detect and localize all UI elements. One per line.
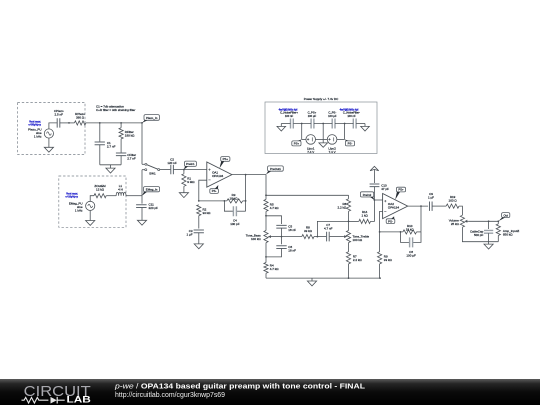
- battery Lipo1 7.4 V: [306, 135, 316, 145]
- voltage source EMag_PU: [86, 201, 95, 210]
- wire C8 parallel loop: [401, 232, 410, 243]
- wire EMag_PU to ZOutEM: [90, 196, 94, 202]
- wiper arrow Tone_Treble: [344, 236, 347, 238]
- svg-text:1 µF: 1 µF: [187, 233, 193, 237]
- ground tone stack rail: [311, 278, 313, 281]
- svg-text:180 kΩ: 180 kΩ: [125, 134, 135, 138]
- node junction R7 ground rail: [348, 277, 350, 279]
- wire riser to treble top: [317, 221, 348, 236]
- wire C1 branch down: [99, 123, 101, 142]
- wire PS- riser down: [344, 124, 346, 140]
- resistor R3 18 kOhm: [227, 199, 243, 203]
- wire ZOutEM to L1: [106, 195, 116, 197]
- capacitor C4 100 pF: [233, 206, 236, 216]
- wire R10 right to feedback riser: [417, 231, 422, 233]
- node junction centre riser: [322, 123, 324, 125]
- node junction PS- riser: [344, 123, 346, 125]
- svg-text:4.7 kΩ: 4.7 kΩ: [270, 206, 280, 210]
- capacitor C9 1 uF: [430, 202, 433, 211]
- svg-text:100 kΩ: 100 kΩ: [251, 237, 261, 241]
- svg-text:PS+: PS+: [398, 188, 404, 192]
- capacitor C11 220 pF: [141, 196, 143, 204]
- net flag Piezo_In: [144, 115, 159, 121]
- wire C7 to treble wiper: [330, 236, 344, 238]
- potentiometer Volume 25 kOhm: [460, 215, 464, 227]
- svg-text:LAB: LAB: [67, 394, 92, 405]
- resistor R4 4.7 kOhm: [264, 263, 268, 274]
- net flag PreIn2: [360, 192, 373, 197]
- ground power supply centre: [322, 139, 324, 143]
- node junction OA1 output feedback: [245, 174, 247, 176]
- wire centre riser down: [322, 124, 324, 140]
- wire PreIn1 to OA1 noninverting input: [184, 169, 207, 171]
- wire feedback node to R3: [199, 200, 227, 202]
- capacitor C1 2.7 nF: [95, 142, 105, 145]
- capacitor C7 4.7 nF: [327, 232, 330, 242]
- node junction treble top R14: [348, 221, 350, 223]
- node junction bass wiper C5 C6: [281, 236, 283, 238]
- wire RFilter branch down: [120, 123, 122, 128]
- wire source Piezo_PU to ground: [48, 138, 50, 147]
- wire C9 to R19: [432, 205, 446, 207]
- svg-text:1 kHz: 1 kHz: [34, 134, 42, 138]
- svg-text:OPA134: OPA134: [212, 174, 223, 178]
- svg-text:25 kΩ: 25 kΩ: [451, 222, 460, 226]
- voltage source Piezo_PU: [44, 129, 53, 138]
- wire RFilter to CFilter: [120, 139, 122, 153]
- wire C3 to ground: [198, 233, 200, 244]
- net flag PreIn1: [185, 161, 197, 166]
- wire OA2 inverting input to feedback node: [380, 211, 383, 232]
- wiper arrow Volume: [465, 220, 469, 222]
- svg-text:SW1: SW1: [149, 172, 156, 176]
- resistor R8 33 kOhm: [302, 235, 314, 239]
- svg-text:PreOut1: PreOut1: [270, 167, 281, 171]
- ground below C3: [194, 244, 203, 249]
- ground below C11: [137, 220, 146, 225]
- node junction PS+ riser: [301, 123, 303, 125]
- ground filter network: [110, 165, 112, 168]
- wire R2 to C3: [198, 216, 200, 229]
- node junction feedback left: [198, 200, 200, 202]
- svg-text:7.4 V: 7.4 V: [307, 150, 314, 154]
- svg-text:100 kΩ: 100 kΩ: [353, 238, 363, 242]
- wire R8 to C7: [314, 236, 326, 238]
- ground below Piezo_PU: [44, 147, 53, 152]
- capacitor C6 18 nF: [281, 237, 283, 245]
- wire CableCap branch: [488, 221, 490, 229]
- capacitor C8 100 uF: [410, 237, 413, 247]
- svg-text:Piezo_In: Piezo_In: [146, 116, 158, 120]
- svg-text:4.7 kΩ: 4.7 kΩ: [270, 267, 280, 271]
- net flag arrow above C10: [370, 166, 379, 171]
- svg-text:p-we / OPA134 based guitar pre: p-we / OPA134 based guitar preamp with t…: [114, 382, 366, 391]
- resistor R10 18 kOhm: [403, 230, 417, 234]
- svg-text:9 MΩ: 9 MΩ: [187, 180, 195, 184]
- wire R7 to ground rail: [348, 264, 350, 278]
- svg-text:650 kΩ: 650 kΩ: [503, 233, 513, 237]
- ground power supply right: [364, 124, 366, 127]
- potentiometer Tone_Bass 100 kOhm: [264, 231, 268, 243]
- node junction CPiezo-RPiezo: [68, 122, 70, 124]
- wire R1 to ground: [183, 186, 185, 192]
- wire switch bottom contact down to EMag_In: [141, 170, 143, 196]
- wire OA1 output: [232, 174, 266, 176]
- wire Amp_InputZ to ground rail: [497, 236, 499, 242]
- svg-text:390 Ω: 390 Ω: [76, 115, 85, 119]
- svg-text:7.4 V: 7.4 V: [329, 150, 336, 154]
- capacitor C10 47 pF: [370, 184, 380, 187]
- wire C6 bottom stub: [266, 249, 282, 257]
- wire EMag_PU to ground: [89, 211, 91, 221]
- capacitor C5 18 nF: [276, 225, 286, 228]
- resistor RFilter 180 kOhm: [119, 128, 123, 139]
- ground below EMag_PU: [86, 221, 95, 226]
- wire R3 right to feedback: [243, 200, 246, 202]
- capacitor CPiezo 2.5 nF: [57, 118, 60, 127]
- resistor R2 33 kOhm: [197, 205, 201, 216]
- ground power supply left: [280, 124, 282, 127]
- wire C5 to wiper node: [281, 228, 283, 237]
- svg-text:100 µF: 100 µF: [406, 253, 416, 257]
- net flag PS- at OA1: [210, 189, 219, 194]
- dashed subcircuit box piezo pickup model: [18, 103, 86, 155]
- node junction CableCap top: [488, 220, 490, 222]
- net flag PS- at OA2: [386, 219, 395, 224]
- svg-text:220 pF: 220 pF: [149, 206, 159, 210]
- wire bass wiper to R8: [282, 236, 302, 238]
- resistor Amp_InputZ 650 kOhm: [497, 221, 499, 224]
- svg-text:PS-: PS-: [212, 189, 217, 193]
- wire OA1 inverting input to feedback node: [199, 180, 207, 201]
- node junction R4 top: [265, 256, 267, 258]
- wire filter bottom rail: [100, 164, 121, 166]
- wire tone stack top to R6: [266, 194, 349, 196]
- svg-text:18 kΩ: 18 kΩ: [230, 197, 239, 201]
- resistor R1 9 MOhm: [183, 170, 185, 174]
- svg-text:100 Ω: 100 Ω: [449, 199, 458, 203]
- battery Lipo2 7.4 V: [327, 135, 337, 145]
- wire C11 to ground: [141, 208, 143, 221]
- net flag PS+ at OA2: [396, 187, 405, 192]
- node junction R8 C7 riser: [317, 236, 319, 238]
- resistor ZOutEM 12 kOhm: [94, 194, 106, 198]
- svg-text:C_PS+: C_PS+: [308, 111, 317, 115]
- svg-text:2.5 nF: 2.5 nF: [54, 113, 63, 117]
- wire PreIn2 to OA2 noninverting input: [374, 199, 382, 201]
- resistor RPiezo 390 Ohm: [74, 121, 86, 125]
- wire C4 parallel loop: [224, 201, 233, 211]
- svg-text:PS+: PS+: [294, 142, 300, 146]
- wire R14 to PreIn2 node: [371, 200, 375, 221]
- svg-text:OPA134: OPA134: [388, 206, 399, 210]
- capacitor C3 1 uF: [194, 230, 204, 233]
- wire C2 to PreIn1 node: [173, 169, 184, 171]
- wiper arrow Tone_Bass: [268, 236, 281, 238]
- wire source Piezo_PU to CPiezo: [49, 123, 57, 129]
- svg-text:PreIn2: PreIn2: [363, 193, 372, 197]
- wire CableCap to ground rail: [488, 233, 490, 242]
- wire R4 to ground rail: [265, 273, 267, 278]
- ground output network: [488, 242, 490, 244]
- svg-text:100 µF: 100 µF: [308, 114, 317, 118]
- resistor R6 2.2 kOhm: [348, 195, 350, 199]
- net flag PS+ source: [292, 141, 301, 146]
- svg-text:C_NoiseFilter-: C_NoiseFilter-: [343, 111, 360, 115]
- svg-text:100 pF: 100 pF: [230, 222, 240, 226]
- node junction R3 right C4: [245, 200, 247, 202]
- wire Volume to output ground rail: [462, 227, 498, 242]
- node junction C5 top stub: [265, 215, 267, 217]
- svg-text:2.2 kΩ: 2.2 kΩ: [338, 206, 348, 210]
- wire switch pole to C2: [160, 169, 171, 171]
- node Piezo_In junction: [141, 122, 143, 124]
- svg-text:PS+: PS+: [223, 157, 229, 161]
- power supply enclosure box: [265, 102, 377, 154]
- svg-text:4 H: 4 H: [118, 188, 123, 192]
- svg-text:Power Supply +/- 7.4v DC: Power Supply +/- 7.4v DC: [304, 97, 339, 101]
- wire Volume wiper to Out node: [469, 220, 498, 222]
- net flag Out: [502, 213, 510, 218]
- svg-text:C+R filter = 3db shelving filt: C+R filter = 3db shelving filter: [96, 108, 135, 112]
- svg-text:+/-10µVp-p: +/-10µVp-p: [65, 196, 78, 199]
- svg-text:47 pF: 47 pF: [381, 187, 389, 191]
- wire power supply rail: [281, 123, 290, 125]
- svg-text:500 pF: 500 pF: [474, 233, 484, 237]
- wire R9 to ground rail: [379, 264, 381, 278]
- svg-text:4.7 nF: 4.7 nF: [324, 227, 333, 231]
- wire battery Lipo1 stubs: [302, 138, 306, 140]
- node junction R9 ground rail: [379, 277, 381, 279]
- logo resistor zigzag: [22, 397, 49, 403]
- op-amp OA1 OPA134: [207, 162, 232, 187]
- svg-text:100 nF: 100 nF: [285, 114, 294, 118]
- svg-text:18 nF: 18 nF: [288, 248, 296, 252]
- wire Piezo_In down to switch: [141, 123, 143, 164]
- net flag PreOut1: [268, 166, 284, 171]
- wire R5 to Tone_Bass: [265, 211, 267, 230]
- svg-text:1 µF: 1 µF: [428, 196, 434, 200]
- ground rail tone stack: [266, 277, 380, 279]
- node junction R3 left C4: [224, 200, 226, 202]
- potentiometer Tone_Treble 100 kOhm: [346, 231, 350, 243]
- node Out junction: [497, 220, 499, 222]
- wire C1 to bottom rail: [99, 145, 101, 165]
- svg-text:100 µF: 100 µF: [328, 114, 337, 118]
- svg-text:EMag_In: EMag_In: [146, 188, 158, 192]
- node junction at RFilter branch: [120, 122, 122, 124]
- resistor R14 1 kOhm: [349, 220, 359, 222]
- capacitor C2 120 nF: [171, 165, 174, 174]
- op-amp OA2 OPA134: [383, 194, 408, 219]
- node PreIn2 junction: [374, 199, 376, 201]
- svg-text:C_PS-: C_PS-: [328, 111, 336, 115]
- wire OA2 output: [408, 205, 428, 207]
- svg-text:+/-50µVp-p: +/-50µVp-p: [28, 124, 41, 127]
- svg-text:33 kΩ: 33 kΩ: [384, 258, 393, 262]
- node junction OA2 feedback left: [379, 231, 381, 233]
- node junction at C1 branch: [99, 122, 101, 124]
- svg-text:2.2 kΩ: 2.2 kΩ: [353, 258, 363, 262]
- svg-text:100 nF: 100 nF: [347, 114, 356, 118]
- svg-text:18 kΩ: 18 kΩ: [406, 228, 415, 232]
- svg-text:33 kΩ: 33 kΩ: [304, 229, 313, 233]
- wire Tone_Bass to R4: [265, 243, 267, 263]
- node junction R10 left C8: [400, 231, 402, 233]
- wire PS+ riser down: [301, 124, 303, 140]
- wire CFilter to bottom rail: [120, 156, 122, 165]
- capacitor CFilter 2.7 nF: [116, 153, 126, 156]
- wire OA1 output corner down tone stack: [265, 174, 267, 199]
- footer bar: [0, 379, 540, 405]
- svg-text:120 nF: 120 nF: [167, 161, 177, 165]
- svg-text:2.7 nF: 2.7 nF: [107, 145, 116, 149]
- svg-text:2.7 nF: 2.7 nF: [127, 157, 136, 161]
- wire R19 to Volume: [459, 206, 462, 215]
- wire C10 to PreIn2 node: [373, 187, 375, 200]
- wire L1 to EMag_In node: [126, 195, 142, 197]
- wire battery Lipo2 stubs: [323, 138, 327, 140]
- dashed subcircuit box electromagnetic pickup model: [59, 176, 126, 227]
- net flag PS+ at OA1: [221, 157, 230, 162]
- svg-text:PS-: PS-: [348, 142, 353, 146]
- switch SW1: [142, 163, 145, 165]
- net flag EMag_In: [144, 187, 160, 192]
- resistor R9 33 kOhm: [379, 232, 381, 252]
- wire Tone_Treble to R7: [348, 243, 350, 252]
- wire main horizontal net from RPiezo to Piezo_In node: [86, 122, 142, 124]
- wire stub to C5 top: [266, 216, 282, 224]
- resistor R7 2.2 kOhm: [346, 252, 350, 264]
- node junction OA2 output feedback: [420, 205, 422, 207]
- net flag PS- source: [345, 141, 354, 146]
- svg-text:12 kΩ: 12 kΩ: [96, 188, 105, 192]
- svg-text:PreIn1: PreIn1: [186, 162, 195, 166]
- capacitor CableCap 500 pF: [484, 230, 493, 233]
- svg-text:http://circuitlab.com/cgur3knw: http://circuitlab.com/cgur3knwp7s69: [115, 392, 225, 399]
- wire CPiezo to RPiezo: [60, 122, 75, 124]
- node PreIn1 junction: [183, 169, 185, 171]
- resistor R5 4.7 kOhm: [264, 199, 268, 211]
- logo diode symbol: [51, 397, 57, 404]
- svg-text:1 kHz: 1 kHz: [75, 208, 83, 212]
- svg-text:1 kΩ: 1 kΩ: [361, 214, 368, 218]
- svg-text:18 nF: 18 nF: [288, 228, 296, 232]
- svg-text:PS-: PS-: [388, 219, 393, 223]
- resistor R19 100 Ohm: [446, 204, 459, 208]
- wire feedback from output down: [245, 175, 247, 212]
- svg-text:C_NoiseFilter+: C_NoiseFilter+: [280, 111, 298, 115]
- wire R6 to Tone_Treble: [348, 211, 350, 230]
- svg-text:33 kΩ: 33 kΩ: [203, 211, 212, 215]
- wire feedback to R10: [380, 231, 403, 233]
- ground below R1: [179, 193, 188, 198]
- inductor L1 4 H: [116, 192, 126, 195]
- wire OA2 feedback down: [420, 206, 422, 232]
- node junction tone stack top: [265, 194, 267, 196]
- svg-text:Out: Out: [503, 213, 508, 217]
